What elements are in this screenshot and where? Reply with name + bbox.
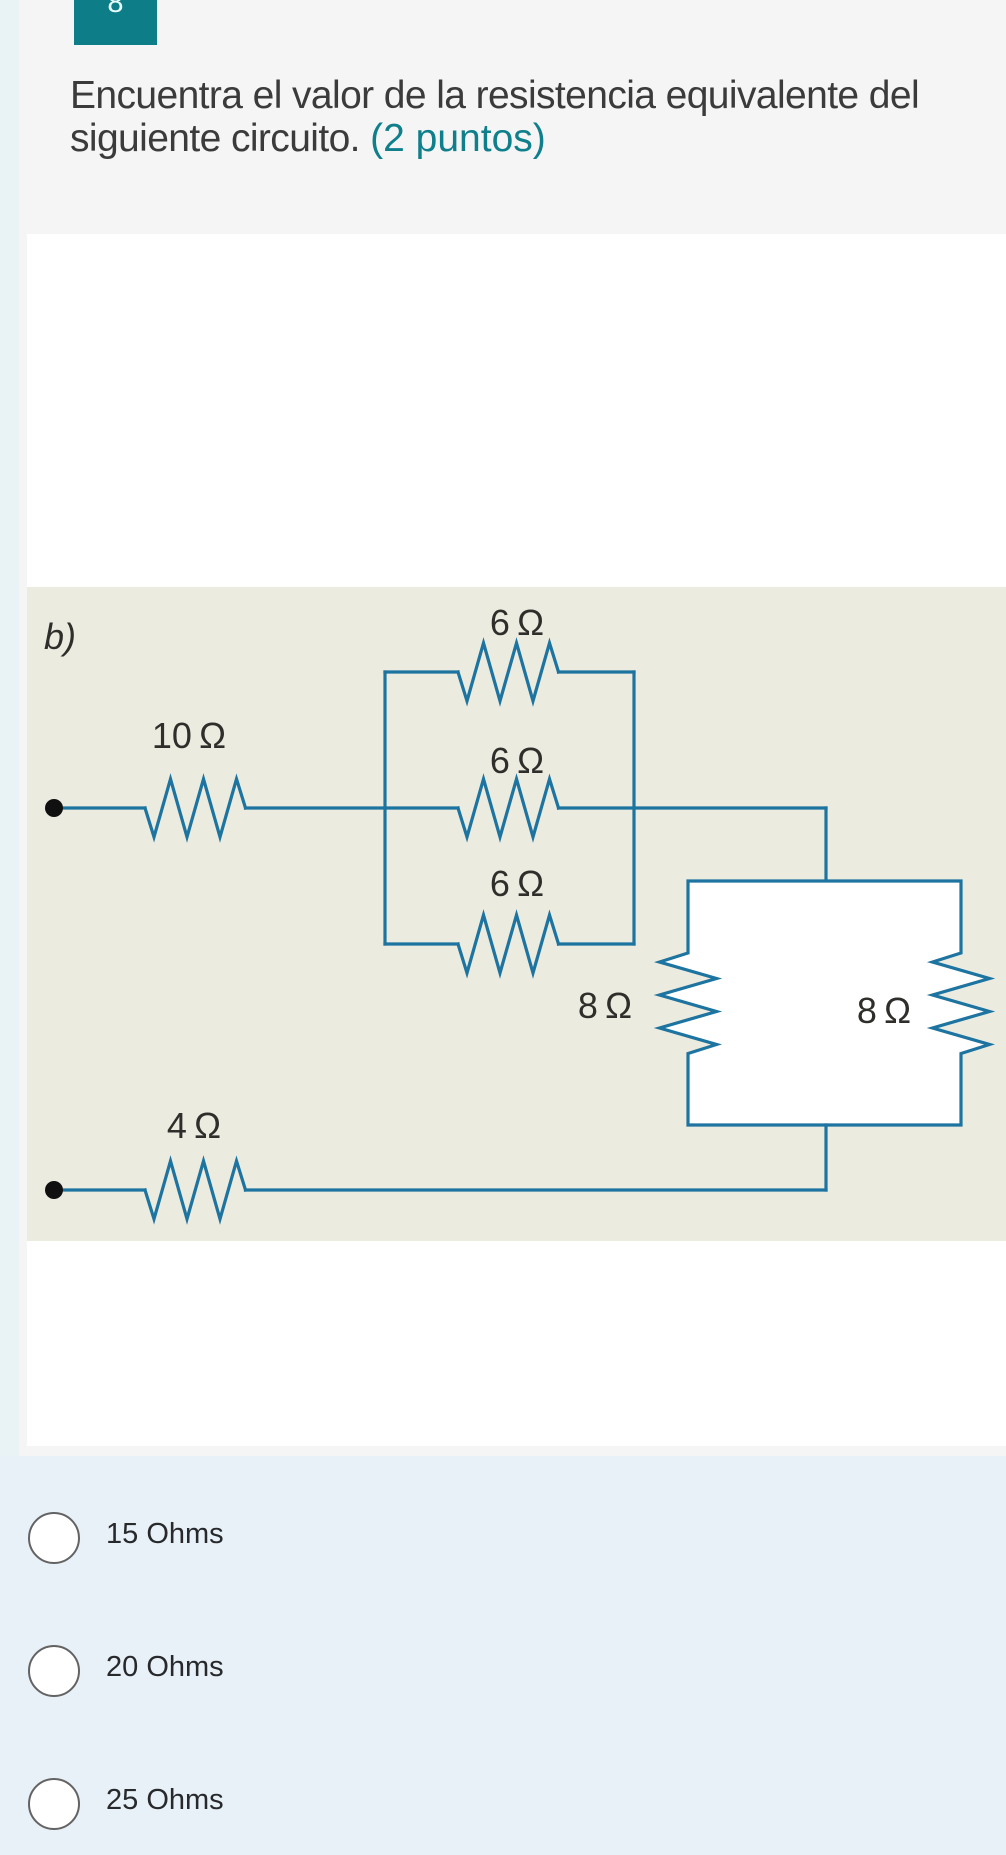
white loop box with resistor R6 8 ohm (left edge) and resistor R7 8 ohm (right edge) bbox=[660, 881, 990, 1125]
wire: right junction vertical bus bbox=[632, 672, 635, 944]
circuit figure bbox=[27, 587, 1006, 1241]
svg-text:8 Ω: 8 Ω bbox=[857, 990, 911, 1031]
wire: box bottom to bottom elbow bbox=[824, 1125, 827, 1190]
svg-text:10 Ω: 10 Ω bbox=[152, 715, 226, 756]
left gutter strip bbox=[0, 0, 19, 1456]
wire: terminal A to resistor R1 bbox=[54, 806, 145, 809]
resistor R2 6 ohm (top) bbox=[458, 643, 559, 701]
wire: middle line to right elbow bbox=[559, 806, 827, 809]
question number badge "8" bbox=[74, 0, 157, 45]
white image card bbox=[27, 234, 1006, 1446]
resistor R5 4 ohm bbox=[145, 1161, 246, 1219]
svg-text:4 Ω: 4 Ω bbox=[167, 1105, 221, 1146]
svg-text:6 Ω: 6 Ω bbox=[490, 740, 544, 781]
wire: elbow down to box top bbox=[824, 808, 827, 881]
wire: bottom branch left bbox=[385, 942, 458, 945]
wire: left junction vertical bus bbox=[383, 672, 386, 944]
radio button option 3 bbox=[28, 1778, 80, 1830]
radio button option 1 bbox=[28, 1512, 80, 1564]
question text bbox=[70, 75, 970, 160]
resistor R3 6 ohm (middle) bbox=[458, 779, 559, 837]
svg-text:8 Ω: 8 Ω bbox=[578, 985, 632, 1026]
svg-text:b): b) bbox=[44, 616, 76, 657]
radio button option 2 bbox=[28, 1645, 80, 1697]
figure background bbox=[27, 587, 1006, 1241]
node A (upper terminal dot) bbox=[45, 799, 63, 817]
wire: bottom branch right bbox=[559, 942, 635, 945]
wire: R1 to left junction bbox=[246, 806, 459, 809]
svg-text:6 Ω: 6 Ω bbox=[490, 863, 544, 904]
wire: bottom line from elbow to resistor R5 bbox=[246, 1188, 827, 1191]
wire: top branch right bbox=[559, 670, 635, 673]
resistor R1 10 ohm bbox=[145, 779, 246, 837]
node B (lower terminal dot) bbox=[45, 1181, 63, 1199]
resistor R4 6 ohm (bottom) bbox=[458, 915, 559, 973]
wire: top branch left bbox=[385, 670, 458, 673]
svg-text:6 Ω: 6 Ω bbox=[490, 602, 544, 643]
answers section background bbox=[0, 1456, 1006, 1855]
wire: terminal B to resistor R5 bbox=[54, 1188, 145, 1191]
